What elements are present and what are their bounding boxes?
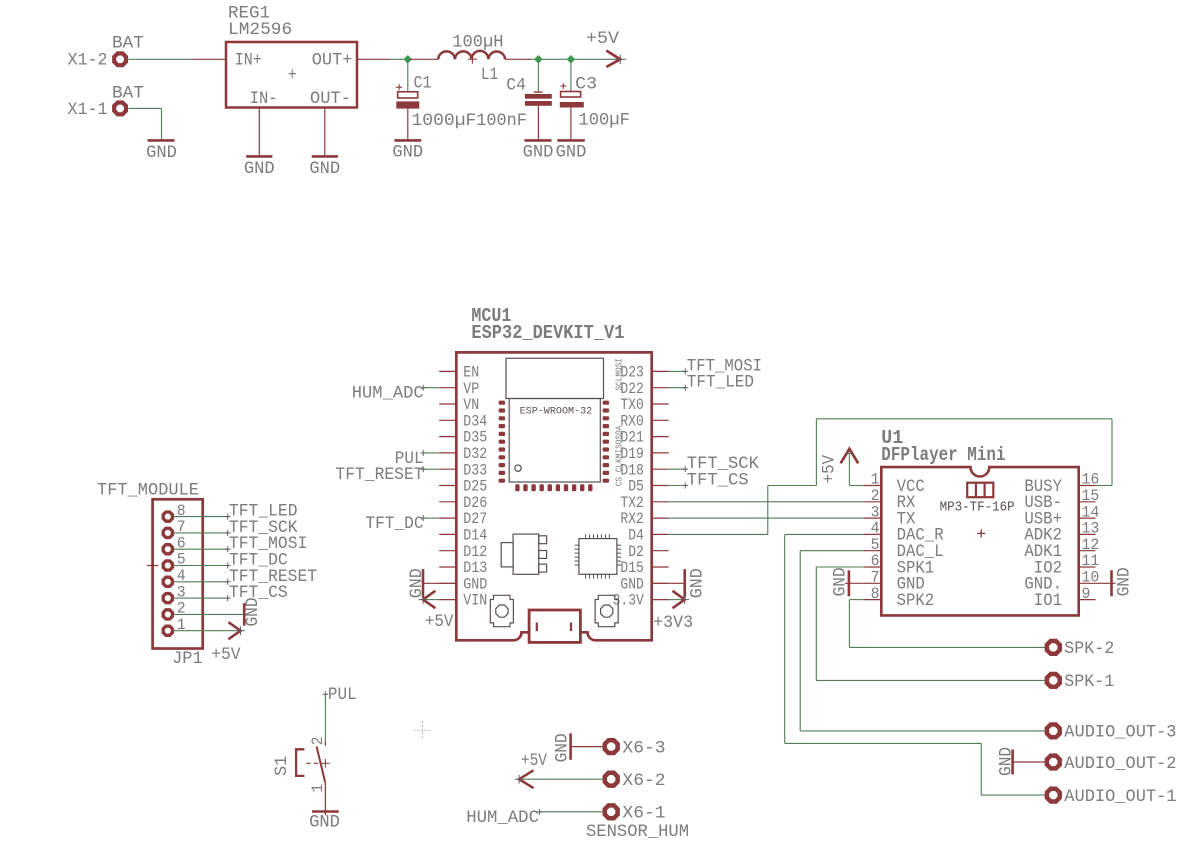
label SPK-1 <box>1064 672 1114 692</box>
svg-text:+5V: +5V <box>425 612 454 632</box>
label X6-3 <box>622 738 665 758</box>
connector pad SPK-2 <box>1047 641 1060 654</box>
label TFT_DC at JP1 pin 5 <box>173 551 287 571</box>
svg-text:D33: D33 <box>463 461 487 479</box>
label U1 <box>881 427 903 449</box>
svg-text:L1: L1 <box>481 65 498 85</box>
wire PUL to S1 <box>324 696 326 742</box>
svg-text:BAT: BAT <box>112 34 144 54</box>
label +5V at VIN <box>425 612 454 632</box>
label TFT_CS at D5 <box>669 471 749 491</box>
value DFPlayer Mini <box>881 444 1005 466</box>
svg-text:6: 6 <box>871 552 880 570</box>
label TFT_LED at JP1 pin 8 <box>173 502 297 522</box>
ground GND at C4 <box>523 140 554 162</box>
U1 left pin stubs <box>864 486 882 600</box>
svg-text:15: 15 <box>1082 487 1100 505</box>
U1 left pin names <box>897 478 944 611</box>
svg-text:+3V3: +3V3 <box>653 613 693 633</box>
svg-text:ESP-WROOM-32: ESP-WROOM-32 <box>520 407 593 418</box>
ground GND at MCU left <box>407 568 457 598</box>
svg-text:C4: C4 <box>506 76 526 96</box>
svg-text:TX2: TX2 <box>620 494 643 512</box>
power +5V arrow at JP1 pin1 <box>173 622 245 639</box>
svg-text:IN+: IN+ <box>235 50 262 70</box>
svg-text:VP: VP <box>463 380 479 398</box>
connector JP1 body <box>153 499 203 648</box>
wire SPK2 to SPK-2 <box>849 600 1045 648</box>
wire TX2 to RX <box>669 501 864 503</box>
svg-text:MOSI: MOSI <box>615 358 625 376</box>
svg-text:GND: GND <box>997 747 1017 776</box>
inductor L1 <box>410 51 530 64</box>
svg-text:CLK: CLK <box>615 458 625 472</box>
svg-text:1: 1 <box>871 471 880 489</box>
svg-text:X6-3: X6-3 <box>622 738 665 758</box>
label +3V3 <box>653 613 693 633</box>
module MCU1 ESP32_DEVKIT_V1 body <box>456 352 651 640</box>
ground GND at X1-1 <box>146 140 177 163</box>
label SPK-2 <box>1064 639 1114 659</box>
svg-text:D4: D4 <box>628 527 644 545</box>
ic U1 DFPlayer Mini body <box>881 467 1078 615</box>
value 100nF <box>476 111 527 131</box>
svg-text:D27: D27 <box>463 510 487 528</box>
label C4 <box>506 76 526 96</box>
label TFT_MOSI at JP1 pin 6 <box>173 534 307 554</box>
label X6-1 <box>622 804 665 824</box>
svg-text:100µH: 100µH <box>452 32 503 52</box>
label PUL at D32 <box>395 449 440 469</box>
svg-text:OUT+: OUT+ <box>312 50 353 70</box>
wire DAC_R to AUDIO_OUT-1 <box>785 534 1046 795</box>
svg-text:GND: GND <box>463 575 487 593</box>
label X1-1 <box>68 100 108 120</box>
label TFT_LED at D22 <box>669 373 754 393</box>
ground GND under OUT- <box>309 156 340 179</box>
svg-text:S1: S1 <box>272 756 292 776</box>
svg-text:+5V: +5V <box>521 751 547 771</box>
pin1 dot circle on submodule <box>515 465 521 471</box>
label X6-2 <box>622 771 665 791</box>
power +3V3 arrow at 3.3V pin <box>669 591 689 608</box>
connector pad X1-2 <box>114 53 126 65</box>
MCU right pin names <box>613 364 645 610</box>
switch S1 <box>296 742 330 816</box>
svg-text:VIN: VIN <box>463 592 487 610</box>
svg-text:+5V: +5V <box>820 455 840 484</box>
wire SPK1 to SPK-1 <box>816 567 1045 680</box>
svg-text:11: 11 <box>1082 552 1100 570</box>
svg-text:GND: GND <box>309 813 340 833</box>
label JP1 <box>172 649 203 669</box>
svg-text:PUL: PUL <box>328 685 357 705</box>
label +5V at VCC <box>820 455 840 484</box>
svg-text:TX0: TX0 <box>620 396 643 414</box>
power +5V arrow at X6-2 <box>515 770 603 788</box>
power +5V arrow right <box>606 51 626 67</box>
ground GND at C1 <box>392 140 423 162</box>
connector pad AUDIO_OUT-3 <box>1047 725 1060 738</box>
capacitor C4 <box>525 59 552 140</box>
submodule right pads <box>603 401 610 483</box>
label C3 <box>575 75 597 95</box>
MCU left pin names <box>463 364 487 610</box>
pin function labels SCL MOSI SDA MISO CLK CS <box>615 358 625 486</box>
svg-text:SDA: SDA <box>615 425 625 439</box>
svg-text:D32: D32 <box>463 445 487 463</box>
svg-text:1000µF: 1000µF <box>412 111 477 131</box>
pin number 2 of S1 <box>309 737 327 746</box>
connector pad X6-3 <box>605 740 618 753</box>
svg-text:+: + <box>288 66 297 86</box>
sheet origin crosshair <box>414 721 432 739</box>
svg-text:OUT-: OUT- <box>310 89 351 109</box>
svg-text:TFT_MODULE: TFT_MODULE <box>97 481 199 501</box>
svg-text:GND: GND <box>243 597 263 626</box>
U1 left pin numbers 1-8 <box>871 471 880 603</box>
MCU right pin stubs <box>652 371 669 599</box>
ground GND at C3 <box>556 140 587 162</box>
svg-text:SPK2: SPK2 <box>897 592 935 611</box>
connector pad AUDIO_OUT-1 <box>1047 789 1060 802</box>
svg-text:D12: D12 <box>463 543 487 561</box>
label TFT_DC at D27 <box>365 514 439 534</box>
ground GND under IN- <box>244 156 275 179</box>
svg-text:ESP32_DEVKIT_V1: ESP32_DEVKIT_V1 <box>471 322 624 344</box>
svg-text:GND: GND <box>620 575 643 593</box>
label MCU1 <box>471 305 511 327</box>
JP1 pads <box>163 512 172 635</box>
submodule bottom pads <box>515 484 592 491</box>
label +5V right <box>586 29 619 49</box>
origin cross U1 <box>977 529 985 537</box>
svg-text:GND: GND <box>556 142 587 162</box>
power +5V arrow at VIN <box>419 591 440 608</box>
svg-text:13: 13 <box>1082 520 1100 538</box>
value 1000uF <box>412 111 477 131</box>
label TFT_SCK at D18 <box>669 454 760 474</box>
svg-text:AUDIO_OUT-3: AUDIO_OUT-3 <box>1064 723 1176 743</box>
pin IN- wire <box>258 108 260 157</box>
svg-text:4: 4 <box>871 520 880 538</box>
svg-text:8: 8 <box>871 585 880 603</box>
svg-text:HUM_ADC: HUM_ADC <box>466 808 539 828</box>
label AUDIO_OUT-3 <box>1064 723 1176 743</box>
svg-text:D5: D5 <box>628 478 644 496</box>
svg-text:MISO: MISO <box>615 440 625 458</box>
U1 right pin numbers 16-9 <box>1082 471 1100 603</box>
label AUDIO_OUT-2 <box>1064 754 1176 774</box>
svg-text:GND: GND <box>146 143 177 163</box>
svg-text:GND: GND <box>244 159 275 179</box>
svg-text:12: 12 <box>1082 536 1100 554</box>
svg-text:9: 9 <box>1082 585 1091 603</box>
micro USB connector <box>529 610 580 642</box>
svg-text:SCL: SCL <box>615 377 625 391</box>
svg-text:D2: D2 <box>628 543 644 561</box>
svg-text:RX2: RX2 <box>620 510 643 528</box>
label +5V at X6-2 <box>521 751 547 771</box>
wire X1-1 to ground <box>128 108 161 140</box>
svg-text:EN: EN <box>463 364 479 382</box>
svg-text:D26: D26 <box>463 494 487 512</box>
svg-text:SENSOR_HUM: SENSOR_HUM <box>586 822 689 842</box>
svg-text:GND: GND <box>688 568 708 598</box>
svg-text:GND: GND <box>553 733 573 762</box>
label C1 <box>414 73 432 93</box>
svg-text:VN: VN <box>463 396 479 414</box>
svg-text:100nF: 100nF <box>476 111 527 131</box>
svg-text:SPK-1: SPK-1 <box>1064 672 1114 692</box>
IC chip on module <box>575 534 622 578</box>
svg-text:D13: D13 <box>463 559 487 577</box>
svg-text:TFT_CS: TFT_CS <box>687 471 749 491</box>
svg-text:IO1: IO1 <box>1034 592 1062 611</box>
label L1 <box>481 65 498 85</box>
net +5V rail wire <box>390 58 618 60</box>
svg-text:X6-1: X6-1 <box>622 804 665 824</box>
svg-text:100µF: 100µF <box>578 110 630 130</box>
svg-text:3.3V: 3.3V <box>613 592 645 610</box>
ground GND at U1 pin10 <box>1096 567 1135 596</box>
junction at C1 <box>404 55 413 64</box>
svg-text:14: 14 <box>1082 503 1100 521</box>
label TFT_RESET at D33 <box>335 465 439 485</box>
svg-text:X1-2: X1-2 <box>68 51 108 71</box>
label PUL <box>323 685 357 705</box>
svg-text:D14: D14 <box>463 527 487 545</box>
svg-text:X1-1: X1-1 <box>68 100 108 120</box>
value 100uH <box>452 32 503 52</box>
ground GND at S1 <box>309 812 340 833</box>
pin name BAT of X1-2 <box>112 34 144 54</box>
regulator part on module <box>501 534 546 574</box>
svg-text:HUM_ADC: HUM_ADC <box>352 384 424 404</box>
svg-text:AUDIO_OUT-1: AUDIO_OUT-1 <box>1064 787 1176 807</box>
svg-text:GND: GND <box>392 142 423 162</box>
pin OUT- wire <box>324 108 326 157</box>
svg-text:D25: D25 <box>463 478 487 496</box>
svg-text:SPK-2: SPK-2 <box>1064 639 1114 659</box>
svg-text:D35: D35 <box>463 429 487 447</box>
label AUDIO_OUT-1 <box>1064 787 1176 807</box>
antenna outline <box>506 358 604 398</box>
svg-text:2: 2 <box>309 737 327 746</box>
ESP-WROOM-32 submodule outline <box>509 399 600 483</box>
value LM2596 <box>228 20 292 40</box>
svg-text:C1: C1 <box>414 73 432 93</box>
svg-text:2: 2 <box>871 487 880 505</box>
svg-text:C3: C3 <box>575 75 597 95</box>
svg-text:BAT: BAT <box>112 83 144 103</box>
label X1-2 <box>68 51 108 71</box>
wire DAC_L to AUDIO_OUT-3 <box>800 551 1045 731</box>
capacitor C3 <box>560 59 584 140</box>
svg-text:MP3-TF-16P: MP3-TF-16P <box>940 501 1015 516</box>
junction at C4 <box>534 55 543 64</box>
label HUM_ADC at X6-1 <box>466 808 603 828</box>
button left <box>490 595 513 626</box>
svg-text:GND: GND <box>407 568 427 598</box>
svg-text:DFPlayer Mini: DFPlayer Mini <box>881 444 1005 466</box>
label ESP-WROOM-32 <box>520 407 593 418</box>
svg-text:AUDIO_OUT-2: AUDIO_OUT-2 <box>1064 754 1176 774</box>
svg-text:IN-: IN- <box>250 89 278 109</box>
svg-text:1: 1 <box>309 784 327 793</box>
ground GND at AUDIO_OUT-2 <box>997 747 1046 776</box>
svg-text:D34: D34 <box>463 412 487 430</box>
JP1 pin numbers <box>177 502 186 634</box>
svg-text:3: 3 <box>871 503 880 521</box>
svg-text:GND: GND <box>309 159 340 179</box>
U1 right pin stubs <box>1079 486 1096 600</box>
svg-text:X6-2: X6-2 <box>622 771 665 791</box>
submodule left pads <box>499 401 506 483</box>
label MP3-TF-16P <box>940 501 1015 516</box>
button right <box>595 595 618 626</box>
svg-text:7: 7 <box>871 569 880 587</box>
MCU left pin stubs <box>439 371 456 599</box>
ground GND at X6-3 <box>553 733 603 762</box>
svg-text:GND: GND <box>523 142 554 162</box>
label REG1 <box>228 4 270 24</box>
wire D4 net to pin16 <box>669 419 1112 535</box>
svg-text:TFT_LED: TFT_LED <box>687 373 754 393</box>
value SENSOR_HUM <box>586 822 689 842</box>
JP1 pin5 tick <box>147 565 159 567</box>
ground GND at MCU right <box>652 568 708 598</box>
svg-text:GND: GND <box>1115 567 1135 596</box>
connector pad X6-2 <box>605 773 618 786</box>
ground GND at U1 pin7 <box>830 567 864 596</box>
power +5V arrow at VCC <box>841 449 864 486</box>
label TFT_MODULE <box>97 481 199 501</box>
label +5V at JP1 <box>211 645 241 665</box>
svg-text:GND: GND <box>830 567 850 596</box>
connector pad AUDIO_OUT-2 <box>1047 756 1060 769</box>
svg-text:CS: CS <box>615 477 625 486</box>
pin name BAT of X1-1 <box>112 83 144 103</box>
connector pad X6-1 <box>605 805 618 818</box>
capacitor C1 <box>396 59 419 140</box>
label TFT_RESET at JP1 pin 4 <box>173 567 317 587</box>
svg-text:+5V: +5V <box>586 29 619 49</box>
svg-text:5: 5 <box>871 536 880 554</box>
svg-text:D15: D15 <box>620 559 643 577</box>
svg-text:TFT_DC: TFT_DC <box>365 514 423 534</box>
voltage regulator REG1 LM2596 <box>226 42 357 109</box>
value 100uF <box>578 110 630 130</box>
value ESP32_DEVKIT_V1 <box>471 322 624 344</box>
SD card symbol <box>967 483 993 498</box>
wire RX2 to TX <box>669 517 864 519</box>
pin number 1 of S1 <box>309 784 327 793</box>
pin IN+ stub <box>193 58 226 60</box>
svg-text:JP1: JP1 <box>172 649 203 669</box>
svg-text:+5V: +5V <box>211 645 241 665</box>
label TFT_SCK at JP1 pin 7 <box>173 518 298 538</box>
label TFT_MOSI at D23 <box>669 356 762 376</box>
wire X1-2 to IN+ <box>128 58 193 60</box>
U1 right pin names <box>1024 478 1062 611</box>
label TFT_CS at JP1 pin 3 <box>173 583 287 603</box>
label S1 <box>272 756 292 776</box>
svg-text:TFT_RESET: TFT_RESET <box>335 465 423 485</box>
ground GND at JP1 pin2 <box>173 597 263 626</box>
pin OUT+ stub <box>357 58 390 60</box>
svg-text:LM2596: LM2596 <box>228 20 292 40</box>
label HUM_ADC at VP <box>352 384 440 404</box>
connector pad SPK-1 <box>1047 674 1060 687</box>
junction at C3 <box>567 55 576 64</box>
connector pad X1-1 <box>114 103 126 115</box>
